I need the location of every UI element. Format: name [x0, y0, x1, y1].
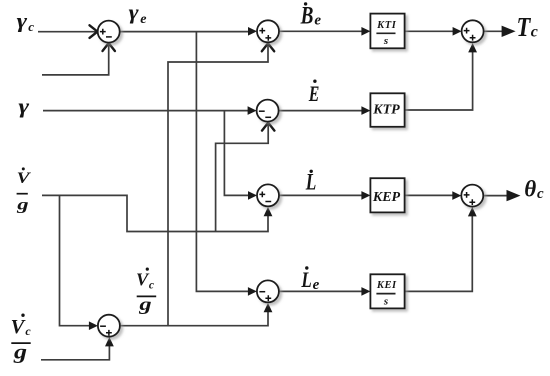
- label Vc/g bottom fraction: [11, 314, 32, 364]
- wire L_e from S5 to block KEI: [279, 290, 362, 292]
- svg-text:T: T: [517, 12, 532, 42]
- svg-text:g: g: [13, 342, 27, 364]
- block KEI/s: [370, 274, 404, 308]
- svg-text:KEI: KEI: [376, 280, 397, 291]
- arrowhead solid into S5 left: [248, 287, 257, 296]
- label L dot: [305, 170, 316, 195]
- wire gamma_e branch down to S5 left: [196, 32, 249, 292]
- plus sign S6 bottom: [106, 330, 112, 336]
- minus sign S4 bottom: [265, 201, 271, 203]
- svg-text:c: c: [25, 324, 31, 338]
- arrowhead open up into S3 bottom: [262, 123, 274, 131]
- wire S8 output to theta_c: [483, 195, 508, 197]
- block KTI/s: [370, 14, 404, 49]
- arrowhead solid into S3 left: [248, 106, 257, 115]
- arrowhead solid up into S8 bottom: [468, 207, 477, 216]
- plus sign S7 bottom: [470, 35, 476, 41]
- svg-text:θ: θ: [524, 177, 536, 202]
- wire gamma branch down to S4 left: [224, 111, 249, 196]
- summing junction S7: [462, 20, 484, 42]
- summing junction S8: [461, 185, 483, 207]
- svg-text:B: B: [300, 3, 314, 30]
- wire S7 output to T_c: [484, 30, 503, 32]
- plus sign S5 bottom: [265, 295, 271, 301]
- arrowhead solid up into S7 bottom: [468, 43, 477, 52]
- arrowhead solid into S8 left: [452, 191, 461, 200]
- label gamma_e: [129, 2, 147, 27]
- wire gamma_e from S1 to S2: [120, 31, 249, 33]
- wire KTI output to S7: [405, 30, 453, 32]
- svg-text:g: g: [138, 294, 152, 314]
- label E dot: [308, 80, 319, 107]
- arrowhead open into S1 left: [90, 25, 98, 38]
- arrowhead solid into block KEI: [361, 287, 370, 296]
- svg-text:e: e: [140, 12, 146, 27]
- arrowhead open up into S1 bottom: [103, 43, 115, 51]
- wire gamma_c input to S1: [38, 31, 97, 33]
- summing junction S1: [98, 21, 120, 43]
- svg-text:e: e: [313, 277, 320, 293]
- minus sign S6 left: [100, 325, 106, 327]
- wire KEI output up to S8 bottom: [405, 216, 473, 291]
- svg-text:γ: γ: [129, 2, 140, 24]
- label Vc/g middle fraction: [136, 268, 156, 314]
- summing junction S6: [98, 315, 120, 337]
- label gamma_c: [17, 11, 35, 34]
- svg-text:c: c: [531, 23, 538, 40]
- label V/g fraction: [16, 167, 31, 213]
- plus sign S8 left: [464, 192, 470, 198]
- svg-text:s: s: [383, 35, 388, 47]
- arrowhead solid into S4 left: [248, 191, 257, 200]
- svg-text:g: g: [16, 197, 29, 214]
- arrowhead open up into S2 bottom: [262, 43, 274, 51]
- plus sign S1 left: [100, 29, 106, 35]
- wire Vc/g bottom input to S6: [41, 345, 109, 360]
- arrowhead solid output T_c: [502, 26, 516, 37]
- svg-text:γ: γ: [17, 11, 28, 33]
- svg-text:γ: γ: [18, 97, 30, 118]
- wire V/g branch down to S6 left: [60, 195, 91, 325]
- summing junction S5: [257, 280, 279, 302]
- arrowhead solid into S2 left: [248, 27, 257, 36]
- arrowhead solid into block KTP: [361, 106, 370, 115]
- wire V/g input line: [42, 195, 268, 231]
- arrowhead solid into S6 left: [89, 321, 98, 330]
- plus sign S4 left: [259, 192, 265, 198]
- wire S6 output to S5 bottom: [120, 312, 268, 326]
- arrowhead solid into S7 left: [453, 27, 462, 36]
- plus sign S2 left: [259, 28, 265, 34]
- plus sign S2 bottom: [265, 35, 271, 41]
- label KEI/s: [376, 280, 397, 307]
- label L_e dot: [301, 266, 320, 293]
- block KTP: [370, 93, 404, 127]
- arrowhead solid up into S5 bottom: [264, 303, 273, 312]
- label T_c output: [517, 12, 538, 42]
- minus sign S3 left: [259, 110, 265, 112]
- wire V/g branch up to S3 bottom: [216, 123, 269, 232]
- svg-text:KTI: KTI: [376, 20, 397, 31]
- svg-text:s: s: [383, 295, 388, 307]
- arrowhead solid up into S4 bottom: [264, 207, 273, 216]
- svg-text:KEP: KEP: [372, 190, 401, 205]
- arrowhead solid into block KEP: [361, 191, 370, 200]
- wire gamma feedback into S1 bottom: [42, 44, 109, 75]
- wire L from S4 to block KEP: [279, 194, 362, 196]
- arrowhead solid output theta_c: [507, 190, 521, 201]
- wire Vc/g up from S6 output to S2 bottom: [168, 44, 268, 326]
- minus sign S1 bottom: [106, 36, 112, 38]
- plus sign S7 left: [464, 28, 470, 34]
- summing junction S2: [257, 20, 279, 42]
- minus sign S5 left: [259, 291, 265, 293]
- wire B_e from S2 to block KTI: [279, 30, 362, 32]
- summing junction S3: [257, 100, 279, 122]
- svg-text:KTP: KTP: [372, 103, 400, 118]
- svg-text:c: c: [149, 280, 154, 292]
- svg-text:e: e: [314, 12, 321, 28]
- block KEP: [370, 178, 404, 212]
- svg-text:V: V: [17, 170, 32, 187]
- summing junction S4: [257, 184, 279, 206]
- svg-text:V: V: [11, 316, 26, 338]
- minus sign S3 bottom: [265, 116, 271, 118]
- wire KEP output to S8: [405, 194, 453, 196]
- label KTI/s: [376, 20, 397, 47]
- label theta_c output: [524, 177, 544, 203]
- wire KTP output up to S7 bottom: [405, 52, 473, 111]
- label B_e dot: [300, 2, 322, 30]
- svg-text:c: c: [28, 19, 34, 34]
- arrowhead solid into block KTI: [361, 27, 370, 36]
- svg-text:L: L: [301, 267, 312, 292]
- arrowhead solid up into S6 bottom: [105, 337, 114, 346]
- svg-text:c: c: [537, 186, 544, 202]
- svg-text:L: L: [305, 170, 316, 195]
- plus sign S8 bottom: [469, 199, 475, 205]
- svg-text:E: E: [308, 81, 319, 106]
- wire gamma input to S3: [43, 110, 249, 112]
- wire E from S3 to block KTP: [279, 110, 362, 112]
